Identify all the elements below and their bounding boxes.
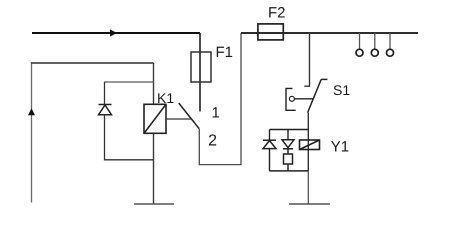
arrow current direction on top wire: [110, 29, 117, 36]
fuse F1: [191, 52, 211, 82]
svg-text:Y1: Y1: [331, 138, 349, 155]
diode flyback across K1 coil: [99, 105, 112, 115]
ground left: [134, 203, 174, 205]
solenoid coil Y1: [300, 140, 320, 150]
terminal circle 2: [371, 33, 378, 56]
diode Y1 suppressor left: [263, 140, 276, 148]
wire S1 bottom to Y1 junction: [307, 113, 309, 130]
svg-text:F2: F2: [268, 4, 286, 21]
ground right: [289, 203, 330, 205]
svg-text:2: 2: [208, 133, 217, 150]
wire Y1 left diode branch top: [269, 130, 271, 141]
diode Y1 suppressor middle: [282, 140, 294, 149]
wire Y1 coil feed through: [307, 130, 309, 171]
contact K1 moving arm: [179, 103, 199, 129]
wire S1 branch drop from top line: [304, 33, 309, 86]
wire flyback diode bottom link: [105, 115, 154, 160]
relay coil K1: [144, 104, 166, 133]
wire Y1 suppressor bottom bar: [270, 170, 309, 172]
wire flyback diode top link: [104, 82, 106, 105]
wire F1 drop from top line to contact terminal 1: [199, 33, 201, 112]
switch S1 moving arm: [308, 79, 328, 112]
wire Y1 middle branch top: [287, 130, 289, 140]
wire K1 coil bottom to ground: [153, 133, 155, 204]
wire K1 coil top feed: [153, 63, 155, 105]
svg-text:F1: F1: [216, 44, 234, 61]
svg-text:K1: K1: [157, 90, 174, 106]
resistor Y1 suppressor: [284, 149, 293, 171]
wire Y1 suppressor top bar: [270, 129, 309, 131]
svg-text:1: 1: [212, 105, 220, 122]
terminal circle 1: [356, 33, 363, 56]
wire Y1 bottom to ground: [307, 171, 309, 204]
terminal circle 3: [387, 33, 394, 56]
linkage K1 coil to contact: [166, 118, 191, 120]
wire left horizontal feed: [31, 62, 154, 64]
wire Y1 left diode branch bottom: [269, 149, 271, 171]
wire contact terminal 2 down and across to F2 riser: [199, 33, 241, 165]
arrow up on left vertical wire: [28, 108, 35, 115]
wire top-left supply line: [32, 32, 200, 34]
wire top-right line through F2: [241, 32, 418, 34]
wire flyback diode top horizontal: [105, 81, 154, 83]
wire left vertical branch: [31, 62, 33, 202]
fuse F2: [258, 24, 283, 40]
svg-text:S1: S1: [333, 82, 350, 98]
actuator S1 manual operator: [286, 88, 313, 110]
